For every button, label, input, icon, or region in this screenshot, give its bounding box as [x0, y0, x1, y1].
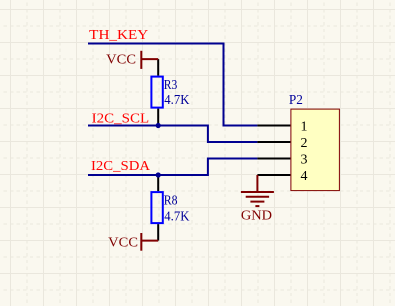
- svg-text:R3: R3: [164, 78, 178, 93]
- svg-text:1: 1: [301, 119, 308, 134]
- svg-text:2: 2: [301, 136, 308, 151]
- svg-text:I2C_SCL: I2C_SCL: [92, 111, 150, 126]
- svg-text:4.7K: 4.7K: [164, 210, 189, 225]
- svg-text:VCC: VCC: [108, 236, 138, 251]
- svg-text:4.7K: 4.7K: [164, 93, 189, 108]
- svg-text:VCC: VCC: [106, 53, 136, 68]
- svg-text:TH_KEY: TH_KEY: [89, 28, 148, 43]
- svg-text:R8: R8: [164, 193, 178, 208]
- svg-text:GND: GND: [241, 208, 272, 223]
- svg-text:P2: P2: [289, 93, 303, 108]
- svg-text:I2C_SDA: I2C_SDA: [91, 159, 151, 174]
- svg-text:3: 3: [301, 152, 308, 167]
- svg-text:4: 4: [301, 169, 308, 184]
